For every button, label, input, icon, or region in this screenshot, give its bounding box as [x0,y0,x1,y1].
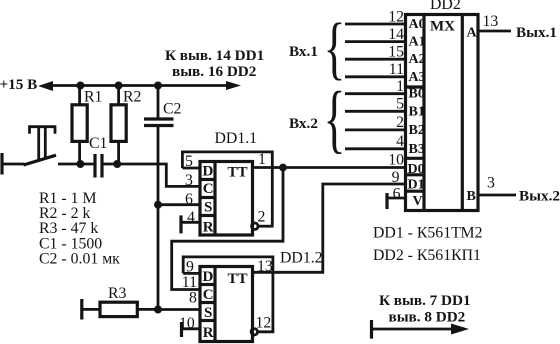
svg-text:Вых.2: Вых.2 [519,188,560,205]
resistor R2 [111,86,142,165]
multiplexer DD2 [406,0,479,211]
wire B0 pin1 [345,92,406,95]
svg-text:11: 11 [182,274,197,291]
wire B2 pin2 [345,128,406,131]
svg-text:2: 2 [258,209,266,226]
wire B1 pin5 [345,110,406,113]
svg-text:К выв. 14 DD1: К выв. 14 DD1 [165,47,264,64]
svg-text:C: C [203,287,214,303]
flip-flop DD1.2 [200,250,323,342]
inverter circle pin2 [252,223,258,229]
svg-text:C2 - 0.01 мк: C2 - 0.01 мк [39,251,120,268]
svg-text:Вх.1: Вх.1 [289,43,318,60]
svg-text:15: 15 [388,43,404,60]
flip-flop DD1.1 [200,130,257,236]
junction node-R1 [76,160,84,168]
svg-text:DD1.2: DD1.2 [280,250,323,267]
wire +15V rail [51,84,228,87]
wire D pin9 [183,272,200,275]
wire A3 pin11 [345,75,406,78]
wire V pin6 [387,197,406,200]
svg-text:B3: B3 [409,142,425,157]
svg-text:DD2 - К561КП1: DD2 - К561КП1 [373,247,481,264]
svg-text:A: A [467,26,478,41]
wire Q pin1 [252,166,406,169]
wire DD1.1 feedback Q2 to D [182,152,272,226]
svg-text:MX: MX [430,19,455,35]
junction rail-C2 [154,82,162,90]
wire B3 pin4 [345,147,406,150]
svg-text:11: 11 [389,61,404,78]
wire to S pin8 [158,308,200,311]
svg-text:13: 13 [483,13,499,30]
capacitor C1 [89,135,107,178]
svg-text:D: D [203,164,214,180]
svg-text:R3: R3 [108,285,127,302]
svg-text:D0: D0 [408,162,425,177]
svg-text:R: R [203,220,214,236]
component values list [39,190,120,268]
wire output A pin13 [478,30,511,33]
terminal bar bottom arrow [370,320,373,339]
junction Q1 node [279,164,287,172]
junction node-R2 [113,160,121,168]
svg-text:TT: TT [228,165,248,181]
svg-text:12: 12 [388,8,404,25]
wire switch to node [58,163,94,166]
svg-text:5: 5 [185,153,193,170]
svg-text:R2: R2 [123,89,142,106]
svg-text:A3: A3 [409,70,426,85]
svg-text:К выв. 7 DD1: К выв. 7 DD1 [379,292,471,309]
svg-text:3: 3 [487,175,495,192]
svg-text:{: { [324,8,346,86]
wire R pin4 [181,221,200,224]
junction rail-R1 [76,82,84,90]
inverter circle pin12 [251,329,257,335]
svg-text:S: S [204,305,212,321]
svg-text:A0: A0 [409,17,426,32]
svg-text:4: 4 [396,133,404,150]
resistor R1 [72,86,102,165]
svg-text:10: 10 [388,151,404,168]
svg-text:S: S [204,200,212,216]
terminal bar R pin4 [179,215,182,233]
svg-text:2: 2 [396,114,404,131]
wire output B pin3 [478,194,516,197]
svg-text:9: 9 [392,169,400,186]
arrowhead right to pin14 DD1 [226,81,241,90]
arrowhead left at +15V rail [38,81,53,91]
wire C2 down to S nodes [157,126,160,310]
svg-text:выв. 16 DD2: выв. 16 DD2 [172,63,256,80]
wire D pin5 [182,167,200,170]
wire R pin10 [182,327,201,330]
svg-text:C2: C2 [163,101,182,118]
wire to S pin6 [158,203,200,206]
svg-text:V: V [413,194,423,209]
svg-text:B1: B1 [409,104,425,119]
svg-text:C: C [203,181,214,197]
svg-text:5: 5 [396,96,404,113]
svg-text:B: B [467,189,476,204]
switch SB pushbutton [24,125,57,165]
svg-text:6: 6 [185,191,193,208]
wire Q1 to DD1.2 C input [172,168,283,290]
wire A1 pin14 [345,40,406,43]
wire pin12 to feedback [258,330,275,333]
svg-text:A2: A2 [409,52,426,67]
wire bottom arrow [372,328,455,331]
wire switch left lead [2,163,25,166]
terminal bar V pin6 [385,193,388,209]
svg-text:R: R [203,325,214,341]
svg-text:DD1 - К561ТМ2: DD1 - К561ТМ2 [373,225,483,242]
svg-text:A1: A1 [409,35,426,50]
junction R3-node [154,306,162,314]
svg-text:D: D [203,269,214,285]
junction S-node DD1.1 [154,201,162,209]
wire A0 pin12 [345,23,406,26]
svg-text:B0: B0 [409,87,425,102]
wire pin2 to feedback [258,225,274,228]
svg-text:DD2: DD2 [430,0,461,13]
svg-text:D1: D1 [408,178,425,193]
arrowhead to pin7 DD1 [451,324,469,335]
svg-text:3: 3 [185,172,193,189]
svg-text:R1: R1 [84,89,102,106]
svg-text:DD1.1: DD1.1 [215,130,258,147]
svg-text:14: 14 [388,26,404,43]
wire DD1.2 feedback Q12 to D [183,257,273,332]
wire Q pin13 to D1 [252,184,406,272]
svg-text:C1: C1 [89,135,107,152]
resistor R3 [82,285,158,320]
svg-text:Вых.1: Вых.1 [516,24,557,41]
svg-text:6: 6 [393,186,401,203]
junction rail-R2 [115,82,123,90]
svg-text:8: 8 [189,290,197,307]
switch SB terminal bar [0,153,3,175]
wire A2 pin15 [345,58,406,61]
svg-text:B2: B2 [409,123,425,138]
svg-text:+15 В: +15 В [0,76,37,93]
svg-text:выв. 8 DD2: выв. 8 DD2 [389,309,466,326]
svg-text:{: { [324,76,346,161]
svg-text:9: 9 [186,259,194,276]
svg-text:13: 13 [257,258,273,275]
svg-text:1: 1 [396,78,404,95]
capacitor C2 [144,86,182,126]
svg-text:Вх.2: Вх.2 [289,115,318,132]
svg-text:TT: TT [228,271,248,287]
svg-text:1: 1 [258,151,266,168]
wire C1 to C input jog [102,164,200,186]
terminal bar R pin10 [180,322,183,337]
